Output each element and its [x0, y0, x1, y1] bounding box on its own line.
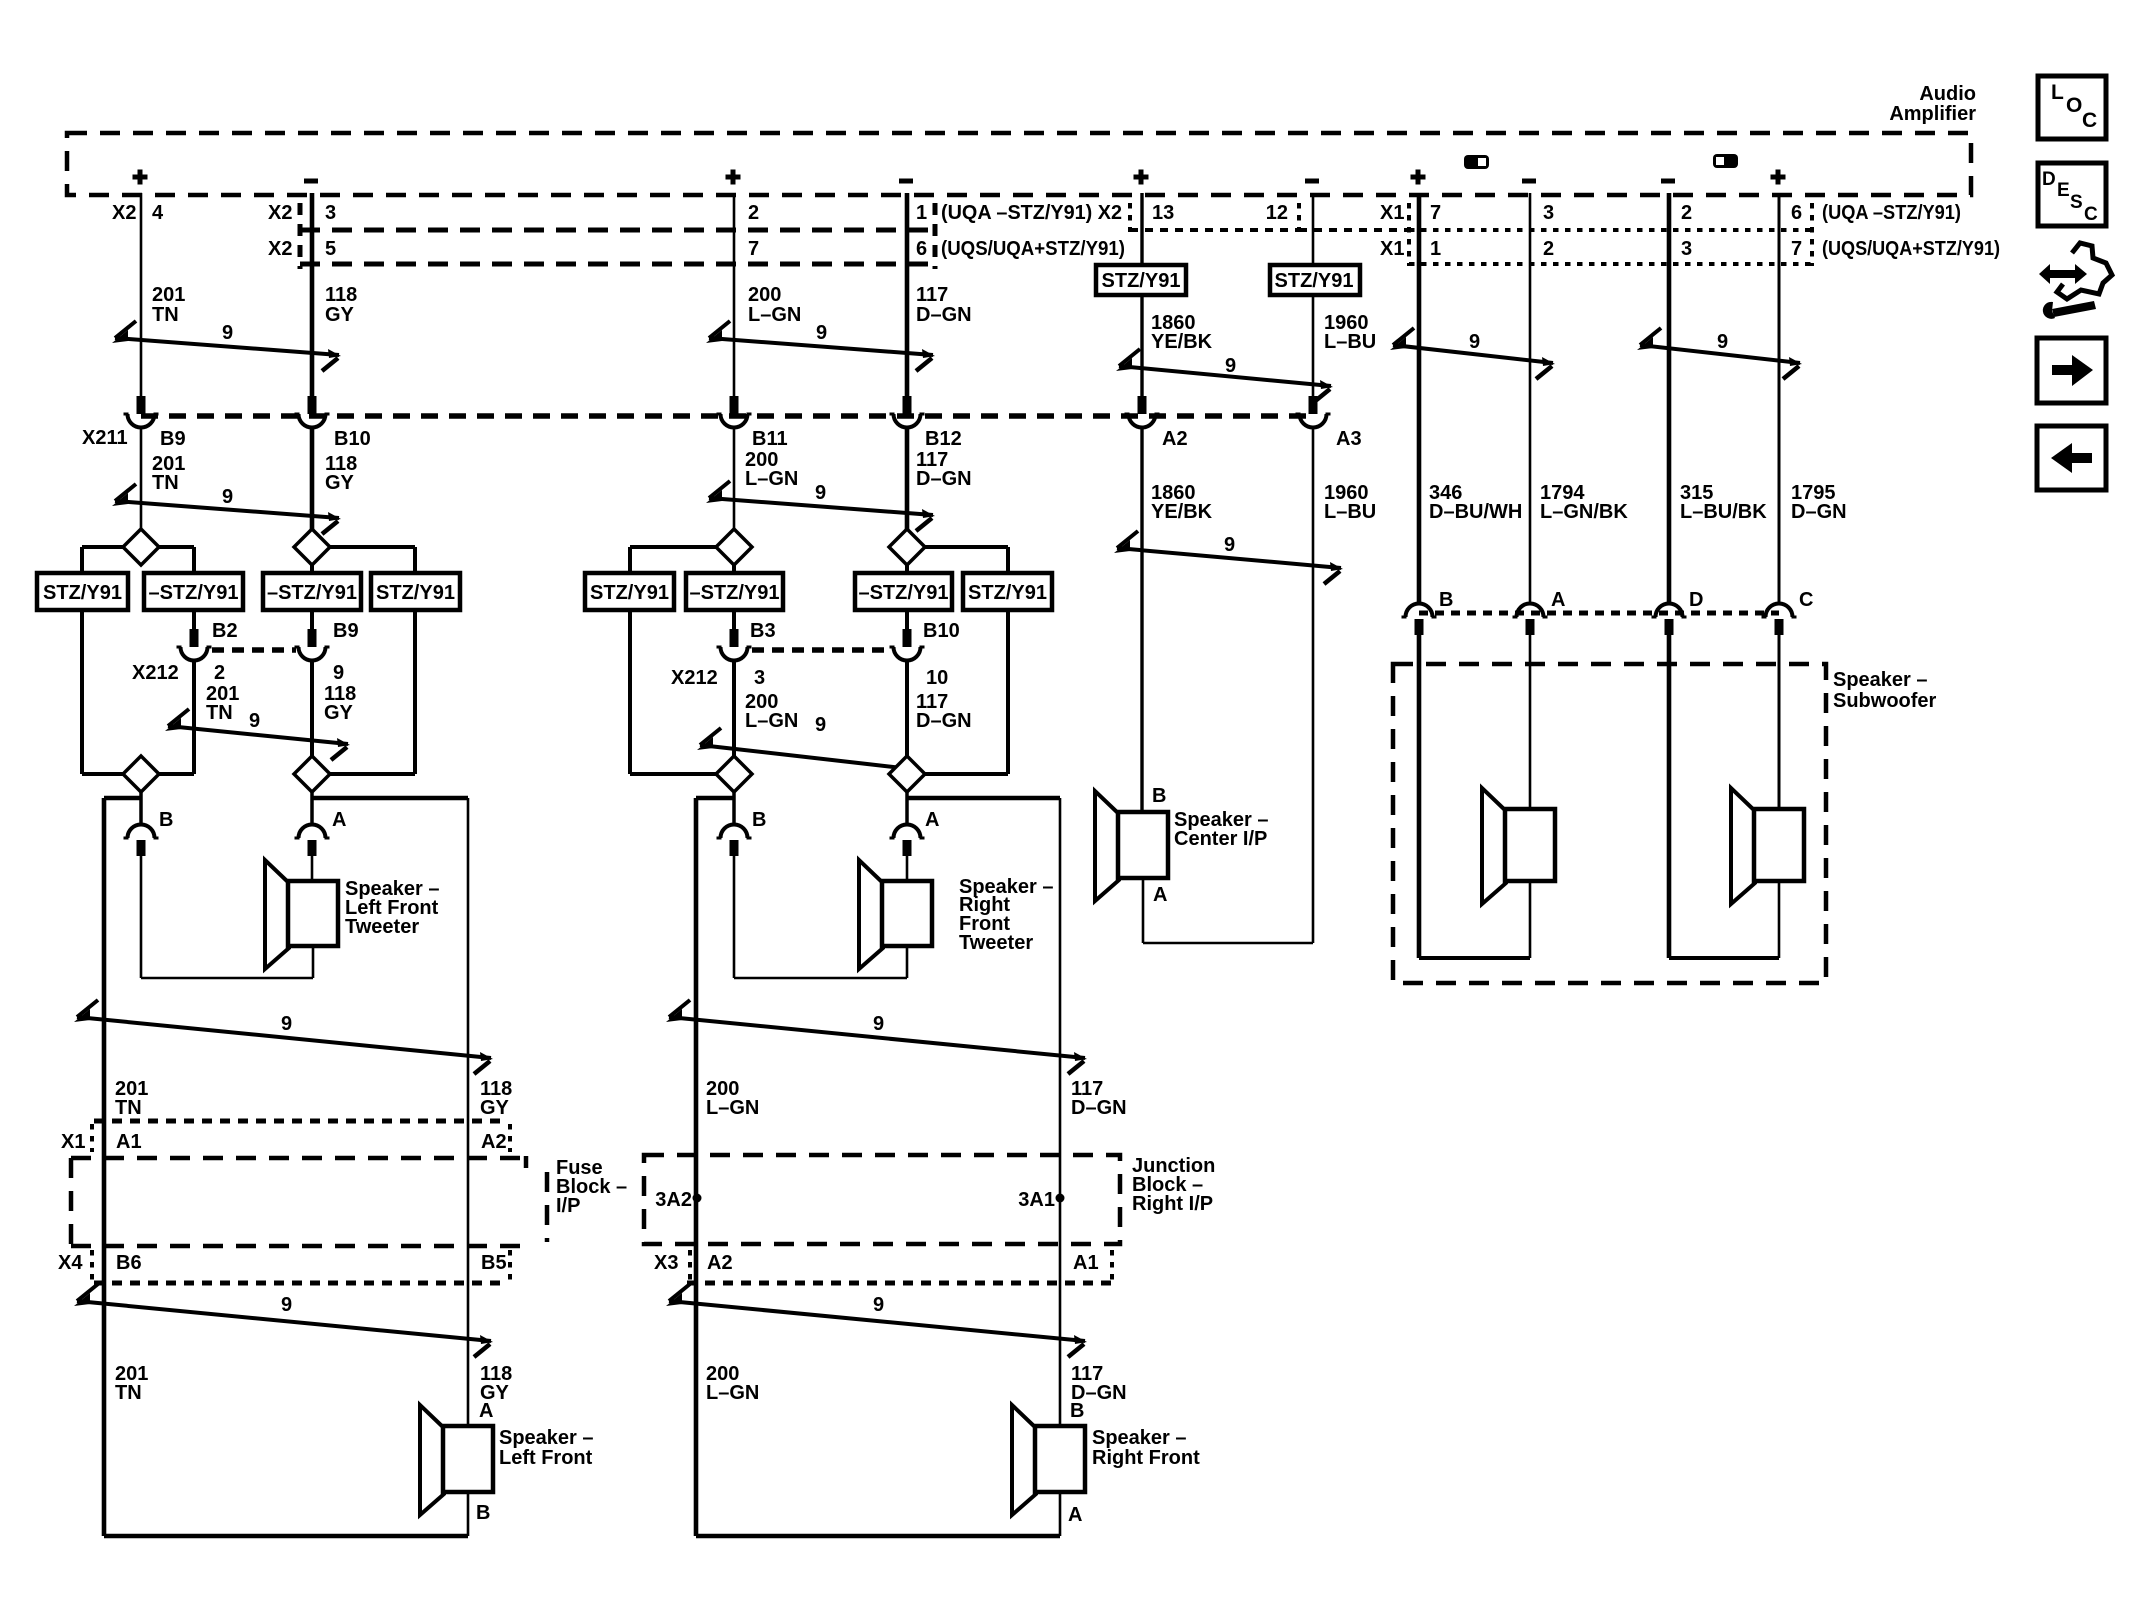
svg-text:13: 13	[1152, 202, 1174, 224]
svg-text:L–GN: L–GN	[745, 710, 798, 732]
svg-text:6: 6	[916, 238, 927, 260]
svg-text:–STZ/Y91: –STZ/Y91	[148, 582, 238, 604]
svg-text:Speaker –: Speaker –	[499, 1427, 594, 1449]
svg-text:9: 9	[222, 322, 233, 344]
svg-text:TN: TN	[152, 472, 179, 494]
svg-text:A3: A3	[1336, 428, 1362, 450]
svg-text:6: 6	[1791, 202, 1802, 224]
svg-text:9: 9	[1717, 331, 1728, 353]
svg-text:Audio: Audio	[1919, 83, 1976, 105]
svg-text:3: 3	[754, 667, 765, 689]
svg-text:D–GN: D–GN	[1791, 501, 1847, 523]
svg-text:9: 9	[249, 710, 260, 732]
svg-text:9: 9	[1224, 534, 1235, 556]
svg-text:TN: TN	[206, 702, 233, 724]
svg-text:(UQS/UQA+STZ/Y91): (UQS/UQA+STZ/Y91)	[941, 238, 1125, 260]
svg-text:B: B	[159, 809, 173, 831]
svg-text:3A2: 3A2	[655, 1189, 692, 1211]
svg-text:L–BU: L–BU	[1324, 501, 1376, 523]
svg-text:L–BU: L–BU	[1324, 331, 1376, 353]
svg-text:9: 9	[816, 322, 827, 344]
svg-text:7: 7	[748, 238, 759, 260]
svg-text:9: 9	[815, 714, 826, 736]
svg-text:B5: B5	[481, 1252, 507, 1274]
svg-text:Tweeter: Tweeter	[345, 916, 419, 938]
svg-text:E: E	[2057, 180, 2070, 201]
svg-text:STZ/Y91: STZ/Y91	[590, 582, 669, 604]
svg-text:X2: X2	[112, 202, 136, 224]
svg-text:7: 7	[1791, 238, 1802, 260]
svg-text:YE/BK: YE/BK	[1151, 501, 1213, 523]
svg-text:L–BU/BK: L–BU/BK	[1680, 501, 1767, 523]
svg-text:TN: TN	[152, 304, 179, 326]
svg-text:X212: X212	[671, 667, 718, 689]
svg-text:TN: TN	[115, 1382, 142, 1404]
svg-text:2: 2	[748, 202, 759, 224]
svg-text:B: B	[476, 1502, 490, 1524]
svg-text:X211: X211	[82, 427, 128, 449]
svg-text:D–GN: D–GN	[916, 304, 972, 326]
svg-text:GY: GY	[325, 304, 355, 326]
svg-text:9: 9	[873, 1294, 884, 1316]
svg-text:(UQS/UQA+STZ/Y91): (UQS/UQA+STZ/Y91)	[1822, 238, 2000, 260]
svg-text:A: A	[1551, 589, 1565, 611]
svg-text:A: A	[925, 809, 939, 831]
svg-text:D–GN: D–GN	[916, 468, 972, 490]
svg-text:A2: A2	[1162, 428, 1188, 450]
svg-text:GY: GY	[324, 702, 354, 724]
svg-text:B: B	[1070, 1400, 1084, 1422]
svg-text:O: O	[2066, 94, 2082, 117]
svg-text:200: 200	[748, 284, 781, 306]
svg-text:A: A	[1153, 884, 1167, 906]
svg-text:B6: B6	[116, 1252, 142, 1274]
svg-text:X2: X2	[268, 202, 292, 224]
svg-text:Right I/P: Right I/P	[1132, 1193, 1213, 1215]
svg-text:Right Front: Right Front	[1092, 1447, 1200, 1469]
svg-text:C: C	[2084, 204, 2098, 225]
svg-text:Center I/P: Center I/P	[1174, 828, 1267, 850]
svg-text:9: 9	[281, 1013, 292, 1035]
svg-text:A: A	[1068, 1504, 1082, 1526]
svg-text:A: A	[479, 1400, 493, 1422]
svg-text:(UQA –STZ/Y91) X2: (UQA –STZ/Y91) X2	[941, 202, 1122, 224]
svg-text:X4: X4	[58, 1252, 83, 1274]
svg-text:–STZ/Y91: –STZ/Y91	[267, 582, 357, 604]
svg-text:Left Front: Left Front	[499, 1447, 593, 1469]
svg-text:201: 201	[152, 284, 185, 306]
svg-text:L–GN: L–GN	[748, 304, 801, 326]
svg-text:X1: X1	[1380, 202, 1404, 224]
svg-text:L: L	[2051, 81, 2064, 104]
svg-text:118: 118	[325, 284, 357, 306]
svg-text:I/P: I/P	[556, 1195, 580, 1217]
svg-text:9: 9	[281, 1294, 292, 1316]
svg-text:B: B	[1152, 785, 1166, 807]
svg-text:9: 9	[1469, 331, 1480, 353]
svg-text:A2: A2	[707, 1252, 733, 1274]
svg-text:9: 9	[222, 486, 233, 508]
svg-text:L–GN/BK: L–GN/BK	[1540, 501, 1628, 523]
svg-text:3: 3	[1543, 202, 1554, 224]
svg-text:YE/BK: YE/BK	[1151, 331, 1213, 353]
svg-text:D–GN: D–GN	[916, 710, 972, 732]
svg-text:B: B	[1439, 589, 1453, 611]
svg-text:D–BU/WH: D–BU/WH	[1429, 501, 1522, 523]
svg-text:A1: A1	[1073, 1252, 1099, 1274]
svg-text:1: 1	[1430, 238, 1441, 260]
svg-text:GY: GY	[325, 472, 355, 494]
svg-text:B10: B10	[334, 428, 371, 450]
svg-text:X2: X2	[268, 238, 292, 260]
svg-text:C: C	[1799, 589, 1813, 611]
svg-text:Speaker –: Speaker –	[1092, 1427, 1187, 1449]
svg-text:2: 2	[214, 662, 225, 684]
svg-text:1: 1	[916, 202, 927, 224]
svg-text:A1: A1	[116, 1131, 142, 1153]
svg-text:L–GN: L–GN	[706, 1382, 759, 1404]
svg-text:STZ/Y91: STZ/Y91	[43, 582, 122, 604]
svg-text:A2: A2	[481, 1131, 507, 1153]
svg-text:C: C	[2082, 109, 2097, 132]
svg-text:10: 10	[926, 667, 948, 689]
svg-text:S: S	[2070, 192, 2083, 213]
svg-text:D: D	[2042, 169, 2056, 190]
svg-text:B11: B11	[752, 428, 788, 450]
svg-text:TN: TN	[115, 1097, 142, 1119]
svg-text:X212: X212	[132, 662, 179, 684]
svg-text:L–GN: L–GN	[706, 1097, 759, 1119]
svg-text:3: 3	[1681, 238, 1692, 260]
svg-text:B2: B2	[212, 620, 238, 642]
svg-text:Amplifier: Amplifier	[1889, 103, 1976, 125]
svg-text:3: 3	[325, 202, 336, 224]
svg-text:7: 7	[1430, 202, 1441, 224]
svg-text:B: B	[752, 809, 766, 831]
svg-text:STZ/Y91: STZ/Y91	[1275, 270, 1354, 292]
svg-text:–STZ/Y91: –STZ/Y91	[689, 582, 779, 604]
svg-text:9: 9	[815, 482, 826, 504]
svg-text:D: D	[1689, 589, 1703, 611]
svg-text:D–GN: D–GN	[1071, 1097, 1127, 1119]
svg-text:9: 9	[333, 662, 344, 684]
svg-text:9: 9	[873, 1013, 884, 1035]
svg-text:B3: B3	[750, 620, 776, 642]
svg-text:117: 117	[916, 284, 948, 306]
svg-text:–STZ/Y91: –STZ/Y91	[858, 582, 948, 604]
svg-text:X1: X1	[1380, 238, 1404, 260]
svg-text:2: 2	[1681, 202, 1692, 224]
svg-text:B9: B9	[333, 620, 359, 642]
svg-text:B12: B12	[925, 428, 962, 450]
svg-text:9: 9	[1225, 355, 1236, 377]
svg-text:STZ/Y91: STZ/Y91	[968, 582, 1047, 604]
svg-text:A: A	[332, 809, 346, 831]
svg-text:3A1: 3A1	[1018, 1189, 1055, 1211]
svg-text:2: 2	[1543, 238, 1554, 260]
svg-text:B10: B10	[923, 620, 960, 642]
svg-text:(UQA –STZ/Y91): (UQA –STZ/Y91)	[1822, 202, 1961, 224]
svg-text:STZ/Y91: STZ/Y91	[1102, 270, 1181, 292]
svg-text:4: 4	[152, 202, 164, 224]
svg-text:STZ/Y91: STZ/Y91	[376, 582, 455, 604]
svg-text:12: 12	[1266, 202, 1288, 224]
svg-text:X3: X3	[654, 1252, 678, 1274]
svg-text:X1: X1	[61, 1131, 85, 1153]
svg-text:Subwoofer: Subwoofer	[1833, 690, 1937, 712]
svg-text:Speaker –: Speaker –	[1833, 669, 1928, 691]
svg-text:B9: B9	[160, 428, 186, 450]
svg-text:L–GN: L–GN	[745, 468, 798, 490]
svg-text:GY: GY	[480, 1097, 510, 1119]
svg-text:Tweeter: Tweeter	[959, 932, 1033, 954]
svg-text:5: 5	[325, 238, 336, 260]
